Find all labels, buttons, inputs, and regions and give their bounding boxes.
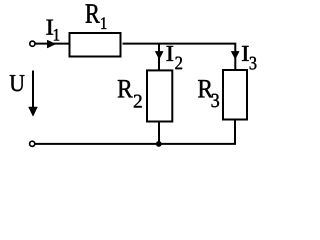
label R3	[198, 80, 213, 97]
wire: R2 bottom stub	[158, 122, 160, 145]
wire: branch down to R2	[158, 44, 160, 70]
resistor R3	[223, 70, 247, 120]
resistor R2	[147, 70, 172, 121]
wire: R1 to right corner (top bus)	[123, 44, 236, 70]
label I2	[166, 46, 173, 61]
terminal top-left (input)	[30, 41, 35, 46]
label U (source voltage)	[10, 75, 25, 91]
label I3	[242, 46, 249, 61]
label R2	[118, 80, 133, 97]
arrow U (voltage direction down)	[32, 71, 34, 109]
wire: bottom rail	[35, 143, 236, 145]
resistor R1	[70, 33, 121, 57]
arrow I2 (current down into R2)	[155, 51, 163, 59]
arrow I1 (current direction right)	[47, 40, 55, 48]
terminal bottom-left	[30, 141, 35, 146]
arrow I3 (current down into R3)	[231, 51, 239, 59]
junction node (R2 to bottom rail)	[156, 141, 162, 147]
label I1	[46, 20, 53, 35]
label R1	[86, 4, 100, 22]
wire: top terminal to R1	[35, 43, 68, 45]
wire: R3 bottom stub	[234, 120, 236, 145]
